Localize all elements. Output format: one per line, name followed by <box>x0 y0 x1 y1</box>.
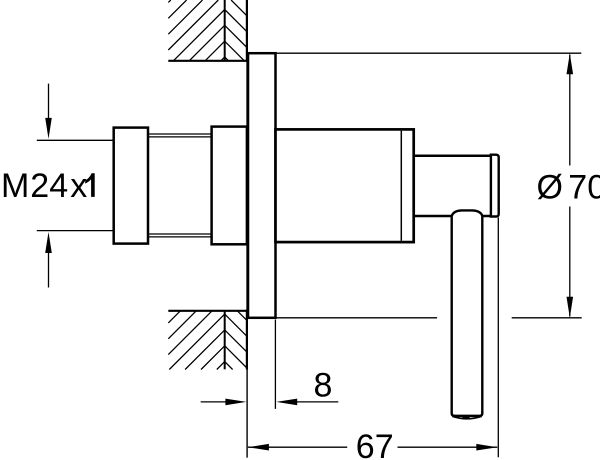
thread root line bottom <box>148 233 212 235</box>
extension line: diameter 70 top <box>276 52 582 54</box>
dimension line: diameter 70 (lower part) <box>569 207 571 317</box>
thread root line top <box>148 136 212 138</box>
digit 1 of x1 (drawn, DIN style without foot) <box>85 173 95 197</box>
thread crest line bottom <box>148 236 212 238</box>
lever bottom surface dash <box>462 417 469 419</box>
svg-text:70: 70 <box>568 169 600 207</box>
svg-text:24: 24 <box>30 167 68 205</box>
extension line: 67 right (handle end) <box>497 218 499 458</box>
hatch: top wall section <box>168 0 171 2</box>
arrowhead: diameter 70 bottom <box>567 297 574 318</box>
dimension line: diameter 70 (upper part) <box>569 55 571 166</box>
extension line: 8 right (plate face) <box>274 320 276 409</box>
svg-text:M: M <box>1 167 29 205</box>
escutcheon plate wall-side edge (thick) <box>246 52 249 319</box>
connector block (against wall) <box>212 127 247 245</box>
escutcheon plate <box>248 53 276 318</box>
extension line: 67 left (wall surface) <box>246 320 248 458</box>
thread crest line top <box>148 133 212 135</box>
extension line: diameter 70 bottom (left segment, broken by lever halo) <box>276 317 438 319</box>
hatch: bottom wall section <box>168 311 180 323</box>
svg-text:67: 67 <box>356 428 394 460</box>
handle stem bottom line (right of lever) <box>482 215 491 218</box>
extension line: M24 bottom <box>37 230 114 232</box>
arrow leader: M24 top <box>48 84 50 120</box>
lever bottom underside curve <box>452 416 481 418</box>
svg-text:8: 8 <box>313 367 332 405</box>
arrowhead: diameter 70 top <box>567 53 574 74</box>
dimension 8: left leader line <box>201 401 228 403</box>
handle stem top line <box>414 155 491 158</box>
wall axis line (top wall, layer joint) <box>224 0 226 61</box>
threaded nut (left fitting) <box>114 128 148 244</box>
svg-text:Ø: Ø <box>537 169 563 207</box>
arrowhead: M24 bottom (points up) <box>45 232 52 253</box>
arrowhead: 8 right (points left) <box>276 399 297 406</box>
lever handle (vertical grip) <box>452 210 483 415</box>
svg-text:x: x <box>70 167 87 205</box>
wall cut edge (bottom wall opening) <box>246 310 248 370</box>
wall surface line (bottom wall) <box>168 310 248 312</box>
wall axis line (bottom wall, layer joint) <box>224 311 226 370</box>
wall cut edge (top wall opening) <box>246 0 248 62</box>
arrowhead: 8 left (points right) <box>225 399 246 406</box>
valve body seam line <box>400 131 402 241</box>
wall surface line (top wall) <box>168 60 248 62</box>
arrowhead: M24 top (points down) <box>45 118 52 139</box>
extension line: M24 top <box>37 139 114 141</box>
arrow leader: M24 bottom <box>48 251 50 288</box>
arrowhead: 67 right <box>476 444 497 451</box>
dimension line: 67 (left segment) <box>248 446 347 448</box>
extension line: diameter 70 bottom (right segment) <box>512 317 582 319</box>
dimension line: 67 (right segment) <box>398 446 498 448</box>
handle stem bottom line (left of lever) <box>414 215 452 218</box>
arrowhead: 67 left <box>248 444 269 451</box>
dimension 8: right leader line <box>297 401 338 403</box>
handle end cap <box>491 155 499 217</box>
valve body cylinder <box>276 129 414 242</box>
